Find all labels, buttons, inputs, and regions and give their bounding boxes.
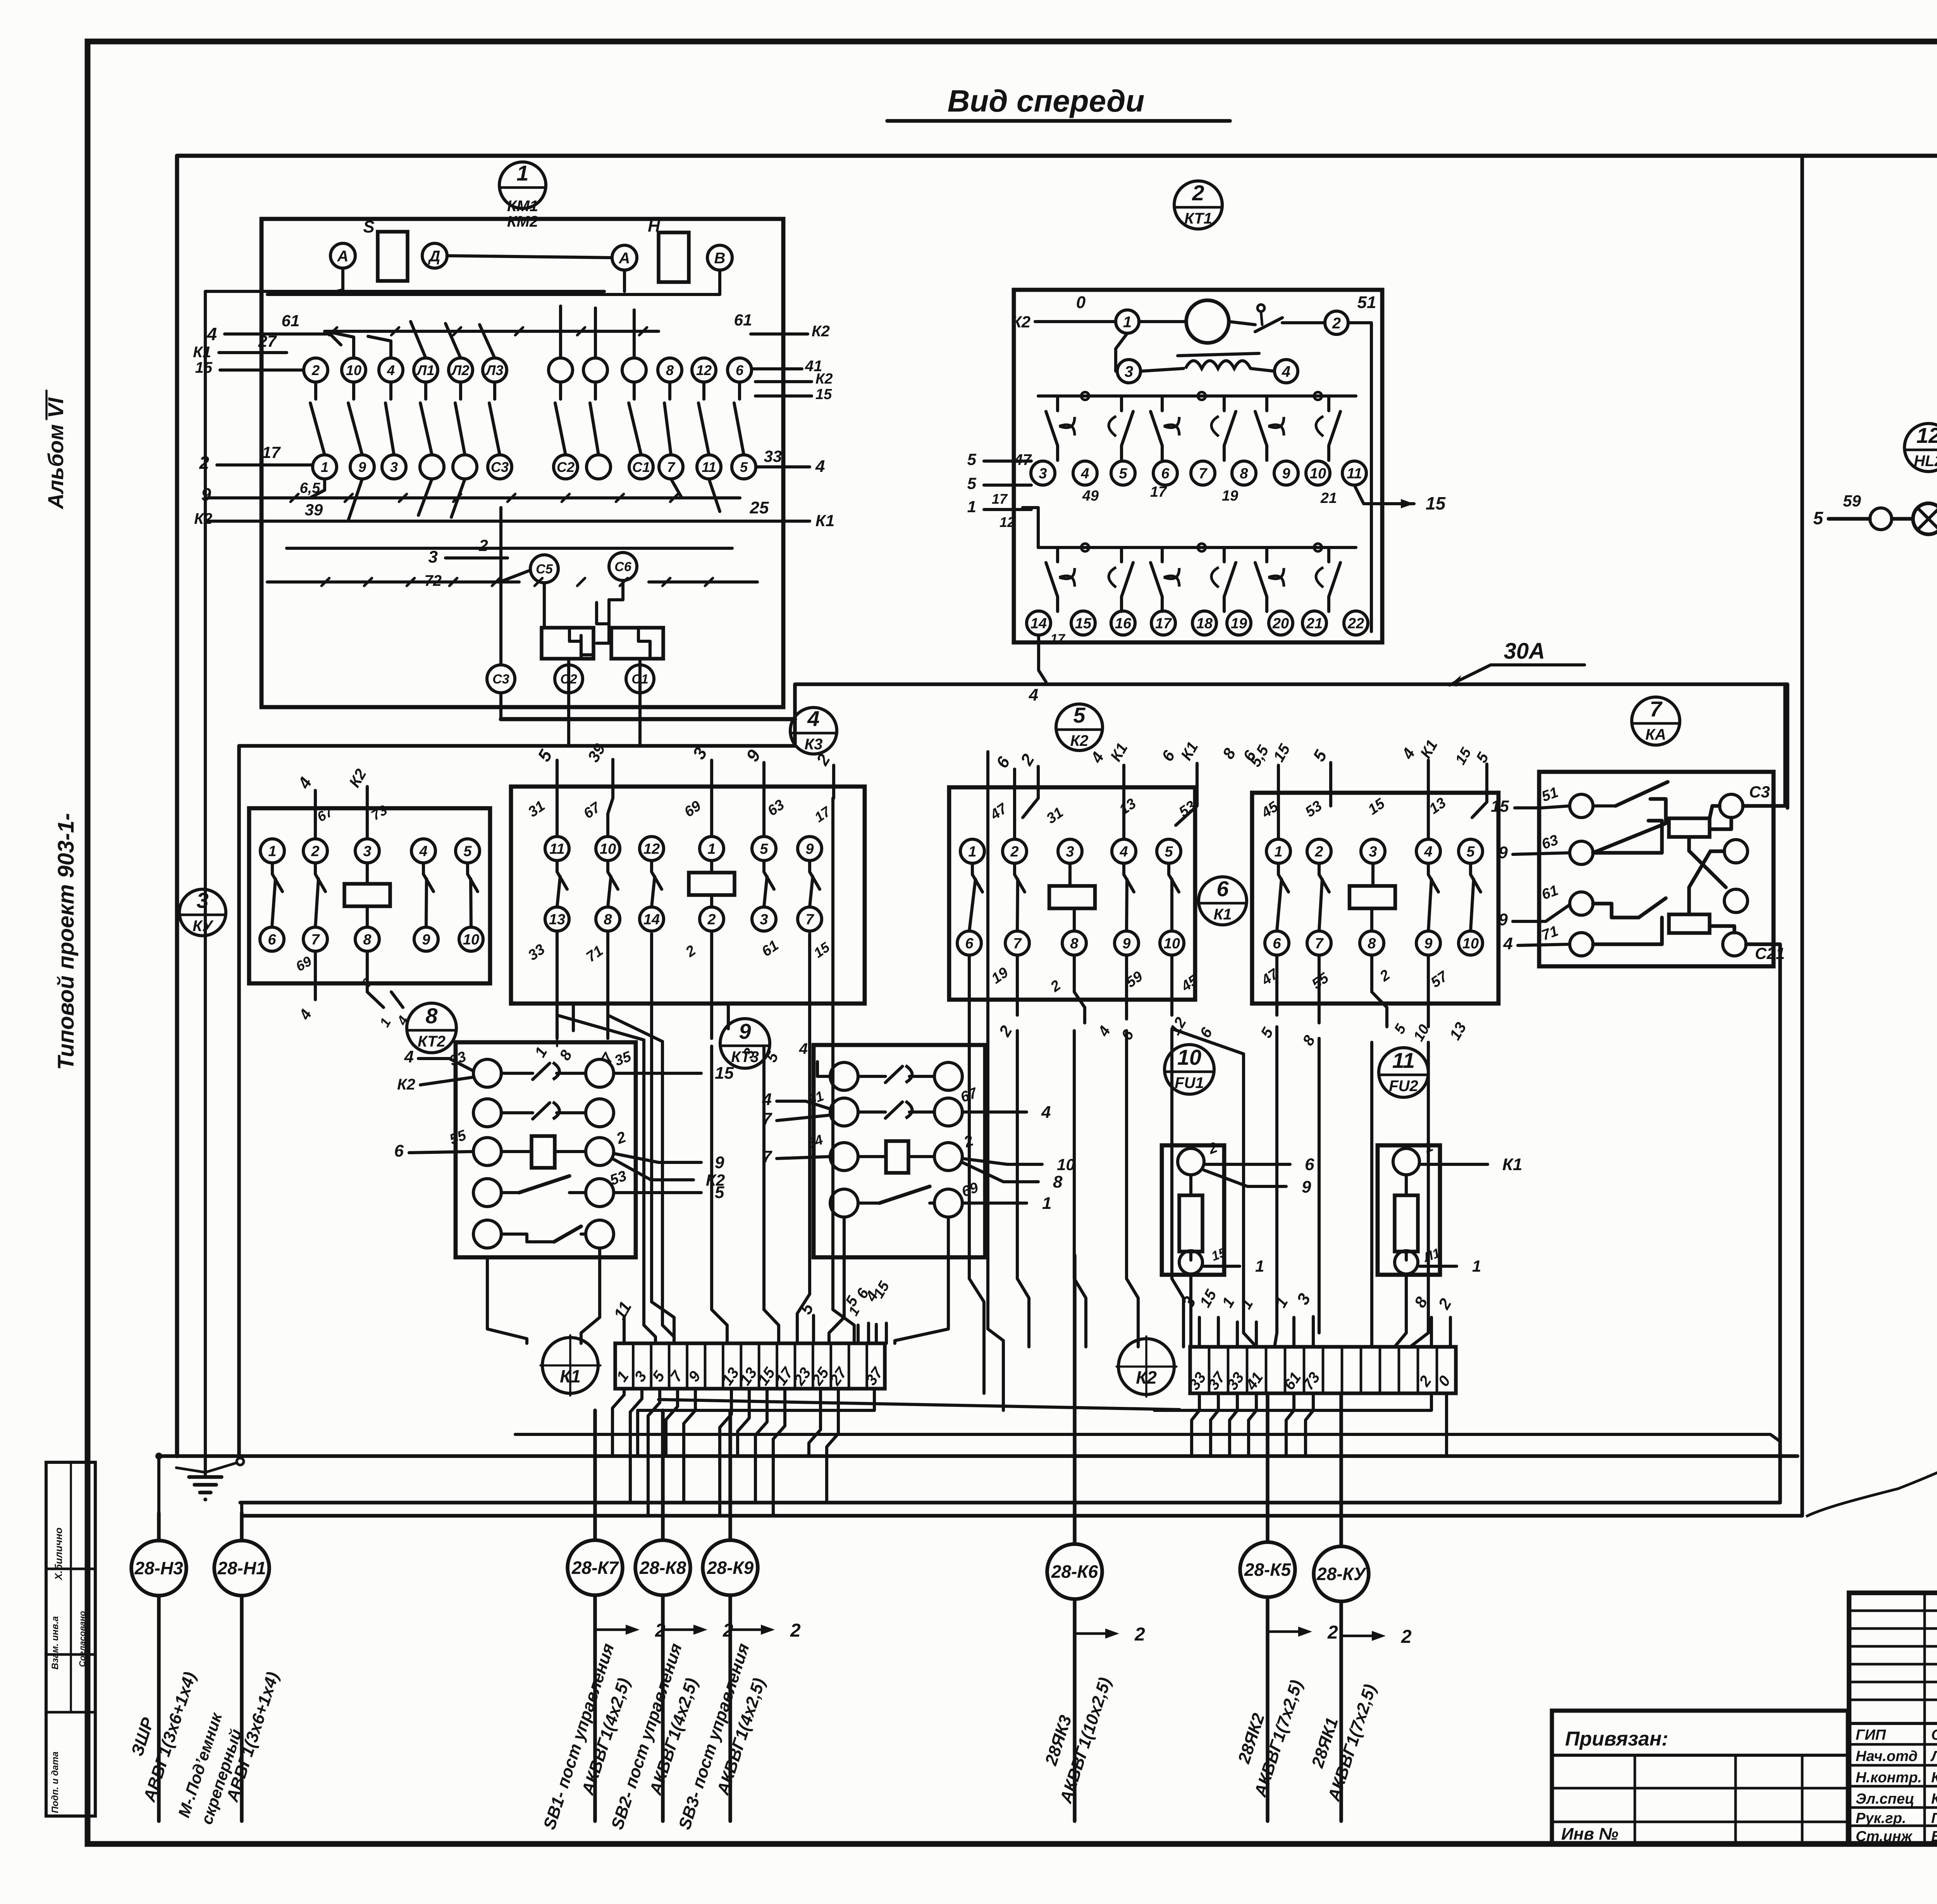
KT1 terminal 22 — [1344, 611, 1368, 635]
relay K2 upper terminal 5 — [1157, 839, 1181, 863]
svg-text:5: 5 — [1391, 1021, 1409, 1037]
svg-text:9: 9 — [1122, 936, 1130, 952]
svg-text:63: 63 — [1540, 832, 1560, 853]
KT1 terminal 20 — [1269, 611, 1293, 635]
KA wire С3 up to 30A corner — [1743, 686, 1785, 806]
KM1/KM2 upper terminal 12 — [692, 358, 716, 382]
svg-text:33: 33 — [764, 447, 782, 465]
svg-text:7: 7 — [311, 932, 320, 948]
KM1/KM2 lower terminal blank — [453, 455, 477, 479]
cable circle 28-К9 — [703, 1410, 801, 1821]
svg-text:4: 4 — [1029, 685, 1038, 704]
svg-text:67: 67 — [581, 799, 604, 822]
svg-text:9: 9 — [715, 1153, 724, 1172]
KT1 terminal 15 — [1071, 611, 1095, 635]
svg-text:Согласовано: Согласовано — [77, 1611, 87, 1667]
svg-text:Бодрихина: Бодрихина — [1931, 1828, 1937, 1845]
KA terminal С21 — [1723, 933, 1785, 962]
KM1/KM2 lower terminal С2 — [554, 455, 578, 479]
svg-text:9: 9 — [805, 841, 814, 857]
relay K1 upper terminal 1 — [1266, 839, 1290, 863]
svg-text:Н.контр.: Н.контр. — [1856, 1770, 1922, 1786]
svg-text:Попкова: Попкова — [1931, 1810, 1937, 1827]
relay K3 upper terminal 12 — [640, 837, 664, 861]
KT1 terminal 18 — [1192, 611, 1216, 635]
KA cross wiring — [1689, 806, 1734, 933]
svg-text:5: 5 — [1073, 703, 1085, 727]
KM1 connector pad — [542, 628, 593, 659]
svg-text:1: 1 — [1219, 1295, 1238, 1310]
KT1 mid labels 47 49 17 19 21 — [1014, 451, 1337, 506]
KM1/KM2 upper terminal 4 — [379, 358, 403, 382]
svg-text:17: 17 — [1150, 484, 1167, 500]
svg-text:10: 10 — [1462, 936, 1479, 952]
svg-text:61: 61 — [734, 311, 752, 329]
FU2 wire К1 — [1419, 1155, 1522, 1174]
svg-text:15: 15 — [1365, 795, 1388, 818]
KT2 row1 wires 4 К2 15 — [397, 1047, 734, 1093]
svg-text:К1: К1 — [193, 344, 211, 361]
svg-text:Л1: Л1 — [416, 362, 435, 378]
svg-text:61: 61 — [282, 312, 300, 330]
relay K2 upper terminal 2 — [1003, 839, 1027, 863]
svg-text:5: 5 — [463, 844, 472, 860]
K2 strip bottom harness wires — [1154, 1393, 1447, 1456]
svg-text:Подп. и дата: Подп. и дата — [50, 1752, 60, 1813]
relay K2 lower terminal 8 — [1062, 931, 1086, 955]
KM1/KM2 pole contacts — [310, 382, 744, 455]
K1 bottom exit wires — [1258, 955, 1470, 1048]
svg-text:6: 6 — [1161, 466, 1170, 482]
svg-text:39: 39 — [584, 740, 609, 765]
svg-text:12: 12 — [1916, 423, 1937, 448]
svg-text:14: 14 — [643, 912, 660, 928]
svg-text:2: 2 — [1401, 1627, 1412, 1647]
KM1/KM2 lower terminal 5 — [732, 455, 756, 479]
FU2 fuse body — [1395, 1175, 1418, 1260]
relay K1 lower terminal 10 — [1459, 931, 1483, 955]
svg-text:К1: К1 — [1178, 739, 1202, 763]
svg-text:К2: К2 — [194, 510, 212, 527]
svg-text:71: 71 — [1540, 923, 1560, 944]
KT1 terminal 8 — [1232, 461, 1256, 485]
fuse FU1 block outline — [1162, 1145, 1224, 1275]
svg-text:6,5: 6,5 — [300, 480, 321, 496]
svg-text:S: S — [363, 217, 374, 236]
node 2 wire (left) — [199, 443, 312, 473]
svg-text:2: 2 — [478, 536, 488, 554]
svg-text:3: 3 — [1125, 363, 1133, 380]
svg-text:С3: С3 — [491, 459, 509, 475]
svg-text:Взам. инв.а: Взам. инв.а — [50, 1616, 60, 1670]
node 9 wire (left) — [201, 480, 320, 504]
node 33/4 wire (right) — [756, 447, 825, 476]
svg-text:К2: К2 — [812, 323, 830, 340]
wires from С3 С2 С1 down to sub-panel bus — [501, 508, 795, 746]
svg-text:1: 1 — [1237, 1296, 1256, 1312]
panel divider between front view and door view — [242, 156, 1802, 1516]
KA mid terminal b — [1724, 889, 1748, 912]
KM1/KM2 lower terminal blank — [420, 455, 444, 479]
svg-text:6: 6 — [1305, 1155, 1314, 1174]
svg-text:1: 1 — [968, 844, 976, 860]
svg-text:1: 1 — [707, 841, 716, 857]
KT1 cam contact — [1229, 305, 1325, 332]
svg-text:5: 5 — [967, 450, 977, 468]
title block signature rows — [1856, 1727, 1937, 1845]
relay KU upper terminal 2 — [303, 839, 327, 863]
panel bottom edge line — [46, 1461, 90, 1464]
svg-text:69: 69 — [681, 798, 704, 821]
K1 strip bottom harness wires — [612, 1389, 874, 1516]
FU1 wires 6 9 — [1204, 1155, 1314, 1196]
svg-text:59: 59 — [1843, 492, 1861, 510]
cable label 28-К7 — [540, 1641, 634, 1832]
svg-text:Д: Д — [428, 248, 440, 265]
KM1/KM2 upper terminal Л1 — [414, 358, 438, 382]
relay K1 upper terminal 3 — [1361, 839, 1385, 863]
svg-text:2: 2 — [1017, 751, 1038, 769]
svg-text:7: 7 — [1650, 697, 1663, 721]
cable label 28-К8 — [607, 1641, 702, 1832]
KT1 terminal 6 — [1153, 461, 1177, 485]
svg-text:Крейнер: Крейнер — [1931, 1791, 1937, 1807]
KM1/KM2 lower terminal 7 — [659, 455, 683, 479]
KT2 row5 contact — [473, 1220, 614, 1248]
svg-text:6: 6 — [268, 932, 276, 948]
svg-text:9: 9 — [742, 746, 764, 765]
svg-text:57: 57 — [1428, 968, 1451, 991]
svg-text:15: 15 — [1452, 745, 1475, 767]
node 41/К2/15 wires (right) — [752, 358, 833, 403]
svg-text:2: 2 — [311, 844, 319, 860]
cable label 28-К5 — [1234, 1678, 1306, 1799]
svg-text:FU1: FU1 — [1175, 1074, 1204, 1091]
svg-text:3: 3 — [363, 844, 371, 860]
KA terminal С3 — [1720, 783, 1770, 818]
svg-text:64: 64 — [805, 1131, 825, 1152]
K2 wire number labels — [987, 795, 1201, 995]
svg-text:8: 8 — [1240, 466, 1248, 482]
relay K3 lower terminal 3 — [752, 907, 776, 931]
KM1/KM2 internal bus wires — [267, 290, 604, 293]
KT1 inductor winding — [1141, 353, 1275, 371]
svg-text:6: 6 — [736, 362, 744, 378]
time relay KT2 block outline — [456, 1042, 636, 1257]
svg-text:8: 8 — [1053, 1172, 1063, 1191]
wire drop to cable 28-Н3 — [157, 1456, 160, 1513]
KT3 row2 wires 4 7 4 — [762, 1090, 1051, 1128]
svg-text:ЗШР: ЗШР — [127, 1715, 158, 1758]
contactor KM1/KM2 block outline — [261, 219, 783, 707]
svg-text:2: 2 — [707, 912, 716, 928]
svg-text:8: 8 — [556, 1047, 576, 1063]
KT3 row2 contact 61-67 — [806, 1085, 980, 1126]
svg-text:5: 5 — [715, 1183, 724, 1202]
svg-text:51: 51 — [1357, 293, 1376, 312]
earthing bus wire along panel bottom — [159, 1454, 1798, 1458]
svg-text:К1: К1 — [1417, 737, 1441, 761]
KT1 terminal 16 — [1111, 611, 1135, 635]
svg-text:21: 21 — [1306, 616, 1323, 632]
svg-text:8: 8 — [1070, 936, 1079, 952]
svg-text:3: 3 — [1293, 1290, 1314, 1308]
KM1/KM2 upper terminal 2 — [304, 358, 328, 382]
svg-text:72: 72 — [425, 572, 442, 589]
svg-text:28-Н3: 28-Н3 — [134, 1558, 183, 1578]
KM1/KM2 upper terminal blank — [622, 358, 646, 382]
svg-text:16: 16 — [1115, 616, 1132, 632]
svg-text:Л2: Л2 — [451, 362, 470, 378]
svg-text:10: 10 — [1164, 936, 1180, 952]
terminal strip K1 designator circle — [540, 1335, 600, 1396]
KT1 upper contact group symbols — [1046, 396, 1340, 460]
terminal strip K2 designator circle — [1116, 1336, 1177, 1397]
cabinet panel outline (front view) — [177, 156, 1937, 1456]
svg-text:9: 9 — [739, 1019, 751, 1043]
KM1/KM2 upper terminal Л2 — [449, 358, 473, 382]
relay K3 lower terminal 13 — [545, 907, 569, 931]
svg-text:2: 2 — [683, 942, 699, 961]
KT2 row4 contact 53 — [473, 1168, 629, 1207]
svg-text:5: 5 — [1119, 466, 1127, 482]
binding box (Привязан) — [1552, 1711, 1848, 1844]
svg-text:К1: К1 — [1502, 1155, 1522, 1174]
cable label 28-К9 — [675, 1641, 769, 1832]
svg-text:5: 5 — [1466, 844, 1475, 860]
KT3 row4 contact 69-1 — [830, 1179, 981, 1217]
svg-text:28-К8: 28-К8 — [639, 1558, 686, 1578]
svg-text:10: 10 — [463, 932, 479, 948]
relay K3 block outline — [511, 787, 865, 1004]
KT2 row2 time contact — [473, 1099, 614, 1127]
wire Д to A (KM2) — [447, 256, 612, 258]
KM1/KM2 lower terminal 3 — [382, 455, 406, 479]
svg-text:5: 5 — [1813, 508, 1823, 528]
svg-text:13: 13 — [1447, 1019, 1470, 1043]
KA wire С21 to bus — [1746, 944, 1780, 953]
KT1 terminal 7 — [1191, 461, 1215, 485]
KT3 row1 contact — [830, 1062, 962, 1090]
KT1 clock motor circle — [1139, 300, 1229, 343]
svg-text:КМ2: КМ2 — [507, 213, 538, 230]
time relay KT2 designator circle 8 — [407, 1003, 456, 1053]
svg-text:7: 7 — [667, 459, 676, 475]
relay K1 upper terminal 5 — [1459, 839, 1483, 863]
relay KU upper terminal 1 — [260, 839, 284, 863]
svg-text:КТ2: КТ2 — [418, 1033, 446, 1050]
node К2 wire (left) — [194, 501, 323, 527]
svg-text:9: 9 — [1498, 910, 1508, 929]
svg-text:1: 1 — [1123, 313, 1132, 331]
svg-text:2: 2 — [614, 1128, 628, 1147]
svg-text:4: 4 — [1503, 934, 1513, 953]
relay K2 lower terminal 6 — [957, 931, 981, 955]
svg-text:К3: К3 — [805, 736, 823, 753]
svg-text:С2: С2 — [557, 459, 575, 475]
svg-text:9: 9 — [1282, 466, 1290, 482]
relay K2 designator circle 5 — [1056, 703, 1103, 751]
svg-text:Инв №: Инв № — [1561, 1825, 1618, 1844]
relay KU designator circle 3 — [179, 888, 226, 936]
svg-text:12: 12 — [643, 841, 660, 857]
node К2 wire (right) — [734, 311, 830, 340]
svg-text:2: 2 — [1377, 967, 1393, 985]
fuse FU2 block outline — [1378, 1145, 1440, 1275]
svg-text:6: 6 — [1273, 936, 1281, 952]
KT1 terminal 21 — [1302, 611, 1326, 635]
svg-text:28-К7: 28-К7 — [571, 1558, 619, 1578]
KT1 terminal 19 — [1227, 611, 1251, 635]
svg-text:30А: 30А — [1504, 639, 1545, 664]
svg-text:7: 7 — [1315, 936, 1324, 952]
KT3 row3 coil 64-2 — [805, 1131, 976, 1173]
svg-text:22: 22 — [1347, 616, 1364, 632]
svg-text:С1: С1 — [632, 459, 650, 475]
svg-text:КМ1: КМ1 — [507, 198, 538, 215]
svg-text:9: 9 — [1302, 1178, 1311, 1196]
FU2 top terminal — [1393, 1138, 1435, 1175]
KT1 terminal 4 — [1073, 461, 1097, 485]
KM1/KM2 lower terminal 9 — [350, 455, 374, 479]
svg-text:4: 4 — [799, 1040, 808, 1057]
svg-text:4: 4 — [1119, 844, 1128, 860]
svg-text:К1: К1 — [1107, 740, 1131, 764]
KA terminal 63 — [1540, 832, 1593, 864]
KT1 terminal 17 — [1151, 611, 1175, 635]
svg-text:К2: К2 — [1012, 313, 1030, 331]
svg-text:33: 33 — [525, 941, 548, 964]
title: front view (Вид спереди) — [887, 84, 1230, 121]
svg-text:К1: К1 — [560, 1366, 581, 1386]
svg-text:4: 4 — [1095, 1023, 1114, 1040]
relay K1 pole contacts and coil — [1277, 863, 1481, 931]
svg-text:3: 3 — [1066, 844, 1074, 860]
svg-text:8: 8 — [1219, 745, 1239, 762]
KM1/KM2 output terminal С2 — [555, 665, 583, 693]
svg-text:3: 3 — [1369, 844, 1377, 860]
svg-text:5,5: 5,5 — [1247, 742, 1272, 770]
svg-text:КУ: КУ — [193, 918, 214, 935]
svg-text:17: 17 — [812, 803, 834, 825]
svg-text:А: А — [619, 250, 630, 267]
svg-text:13: 13 — [1116, 795, 1139, 818]
svg-text:А: А — [337, 248, 349, 265]
svg-text:1: 1 — [1255, 1257, 1264, 1275]
relay KU lower terminal 10 — [459, 927, 483, 951]
KT1 wire to node 15 (right) — [1354, 485, 1446, 513]
relay K2 lower terminal 10 — [1160, 931, 1184, 955]
svg-text:9: 9 — [358, 459, 366, 475]
svg-text:73: 73 — [368, 802, 390, 823]
svg-text:0: 0 — [1076, 293, 1086, 312]
svg-text:53: 53 — [1302, 798, 1325, 821]
svg-text:HL2: HL2 — [1914, 453, 1937, 470]
svg-text:4: 4 — [1087, 749, 1108, 766]
KT1 lower contact group symbols — [1046, 547, 1340, 611]
earth junction dot — [155, 1453, 162, 1460]
KT1 terminal 5 — [1111, 461, 1135, 485]
relay KU lower terminal 8 — [355, 927, 379, 951]
KM1/KM2 upper terminal blank — [549, 358, 573, 382]
thermal element symbol under С6 — [581, 580, 623, 655]
relay K2 lower terminal 9 — [1115, 931, 1139, 955]
relay KU lower terminal 7 — [303, 927, 327, 951]
svg-text:1: 1 — [967, 498, 976, 516]
KM1/KM2 lower terminal 11 — [697, 455, 721, 479]
KM1/KM2 upper terminal 8 — [658, 358, 682, 382]
relay KU lower terminal 9 — [414, 927, 438, 951]
title block inner grid — [1849, 1593, 1937, 1844]
relay K2 upper terminal 4 — [1112, 839, 1136, 863]
svg-text:21: 21 — [1320, 490, 1337, 506]
FU2 bottom terminal — [1395, 1246, 1481, 1275]
harness wire from K1 strip to K2 strip area — [659, 1400, 1180, 1410]
KM1/KM2 auxiliary terminal С5 — [530, 555, 558, 583]
svg-text:КТ1: КТ1 — [1184, 210, 1212, 227]
svg-text:4: 4 — [1080, 466, 1089, 482]
svg-text:61: 61 — [759, 937, 782, 960]
svg-text:10: 10 — [1310, 466, 1326, 482]
svg-text:8: 8 — [1299, 1032, 1319, 1048]
lamp HL2 circuit — [1813, 492, 1937, 543]
svg-text:51: 51 — [1540, 784, 1560, 805]
svg-text:Рук.гр.: Рук.гр. — [1856, 1810, 1906, 1827]
relay K3 pole contacts and coil — [557, 861, 820, 907]
svg-text:25: 25 — [750, 498, 769, 517]
relay KU block outline — [249, 808, 490, 983]
KM1/KM2 auxiliary terminal С6 — [609, 553, 637, 580]
relay K3 lower terminal 2 — [700, 907, 724, 931]
svg-text:19: 19 — [1231, 616, 1247, 632]
relay KA designator circle 7 — [1632, 697, 1680, 745]
KM1/KM2 upper terminal 10 — [342, 358, 366, 382]
svg-text:19: 19 — [1222, 488, 1238, 504]
KA coil 2 — [1669, 914, 1710, 933]
cable circle 28-КУ — [1314, 1395, 1412, 1821]
KM2 connector pad — [611, 628, 663, 659]
svg-text:49: 49 — [1082, 488, 1099, 504]
KT1 terminal 4 — [1275, 360, 1298, 383]
svg-text:31: 31 — [525, 798, 548, 821]
svg-text:45: 45 — [1178, 972, 1201, 995]
svg-text:18: 18 — [1196, 616, 1213, 632]
svg-text:7: 7 — [1013, 936, 1022, 952]
svg-text:10: 10 — [1057, 1155, 1075, 1174]
svg-text:С5: С5 — [536, 562, 553, 577]
svg-text:17: 17 — [1155, 616, 1172, 632]
svg-text:15: 15 — [1197, 1287, 1220, 1310]
relay KU lower terminal 6 — [260, 927, 284, 951]
KM1/KM2 upper terminal 6 — [728, 358, 752, 382]
KM1/KM2 lower terminal С3 — [488, 455, 512, 479]
relay K2 block outline — [949, 787, 1195, 1000]
svg-text:6: 6 — [394, 1141, 404, 1160]
svg-text:2: 2 — [1206, 1139, 1220, 1157]
svg-text:6: 6 — [1216, 876, 1229, 901]
KM1/KM2 lower wiring harness — [267, 479, 757, 582]
svg-text:13: 13 — [549, 912, 565, 928]
svg-text:2: 2 — [1314, 844, 1323, 860]
door outline free curve (right edge, opened door) — [1806, 156, 1937, 1517]
KA terminal 61 — [1540, 882, 1593, 915]
svg-text:1: 1 — [268, 844, 276, 860]
svg-text:Х.билично: Х.билично — [53, 1527, 64, 1580]
KT1 lower contact group bus — [1023, 508, 1356, 551]
left margin stamp boxes — [46, 1462, 95, 1816]
relay KU upper terminal 3 — [355, 839, 379, 863]
cable circle 28-К5 — [1240, 1395, 1338, 1821]
